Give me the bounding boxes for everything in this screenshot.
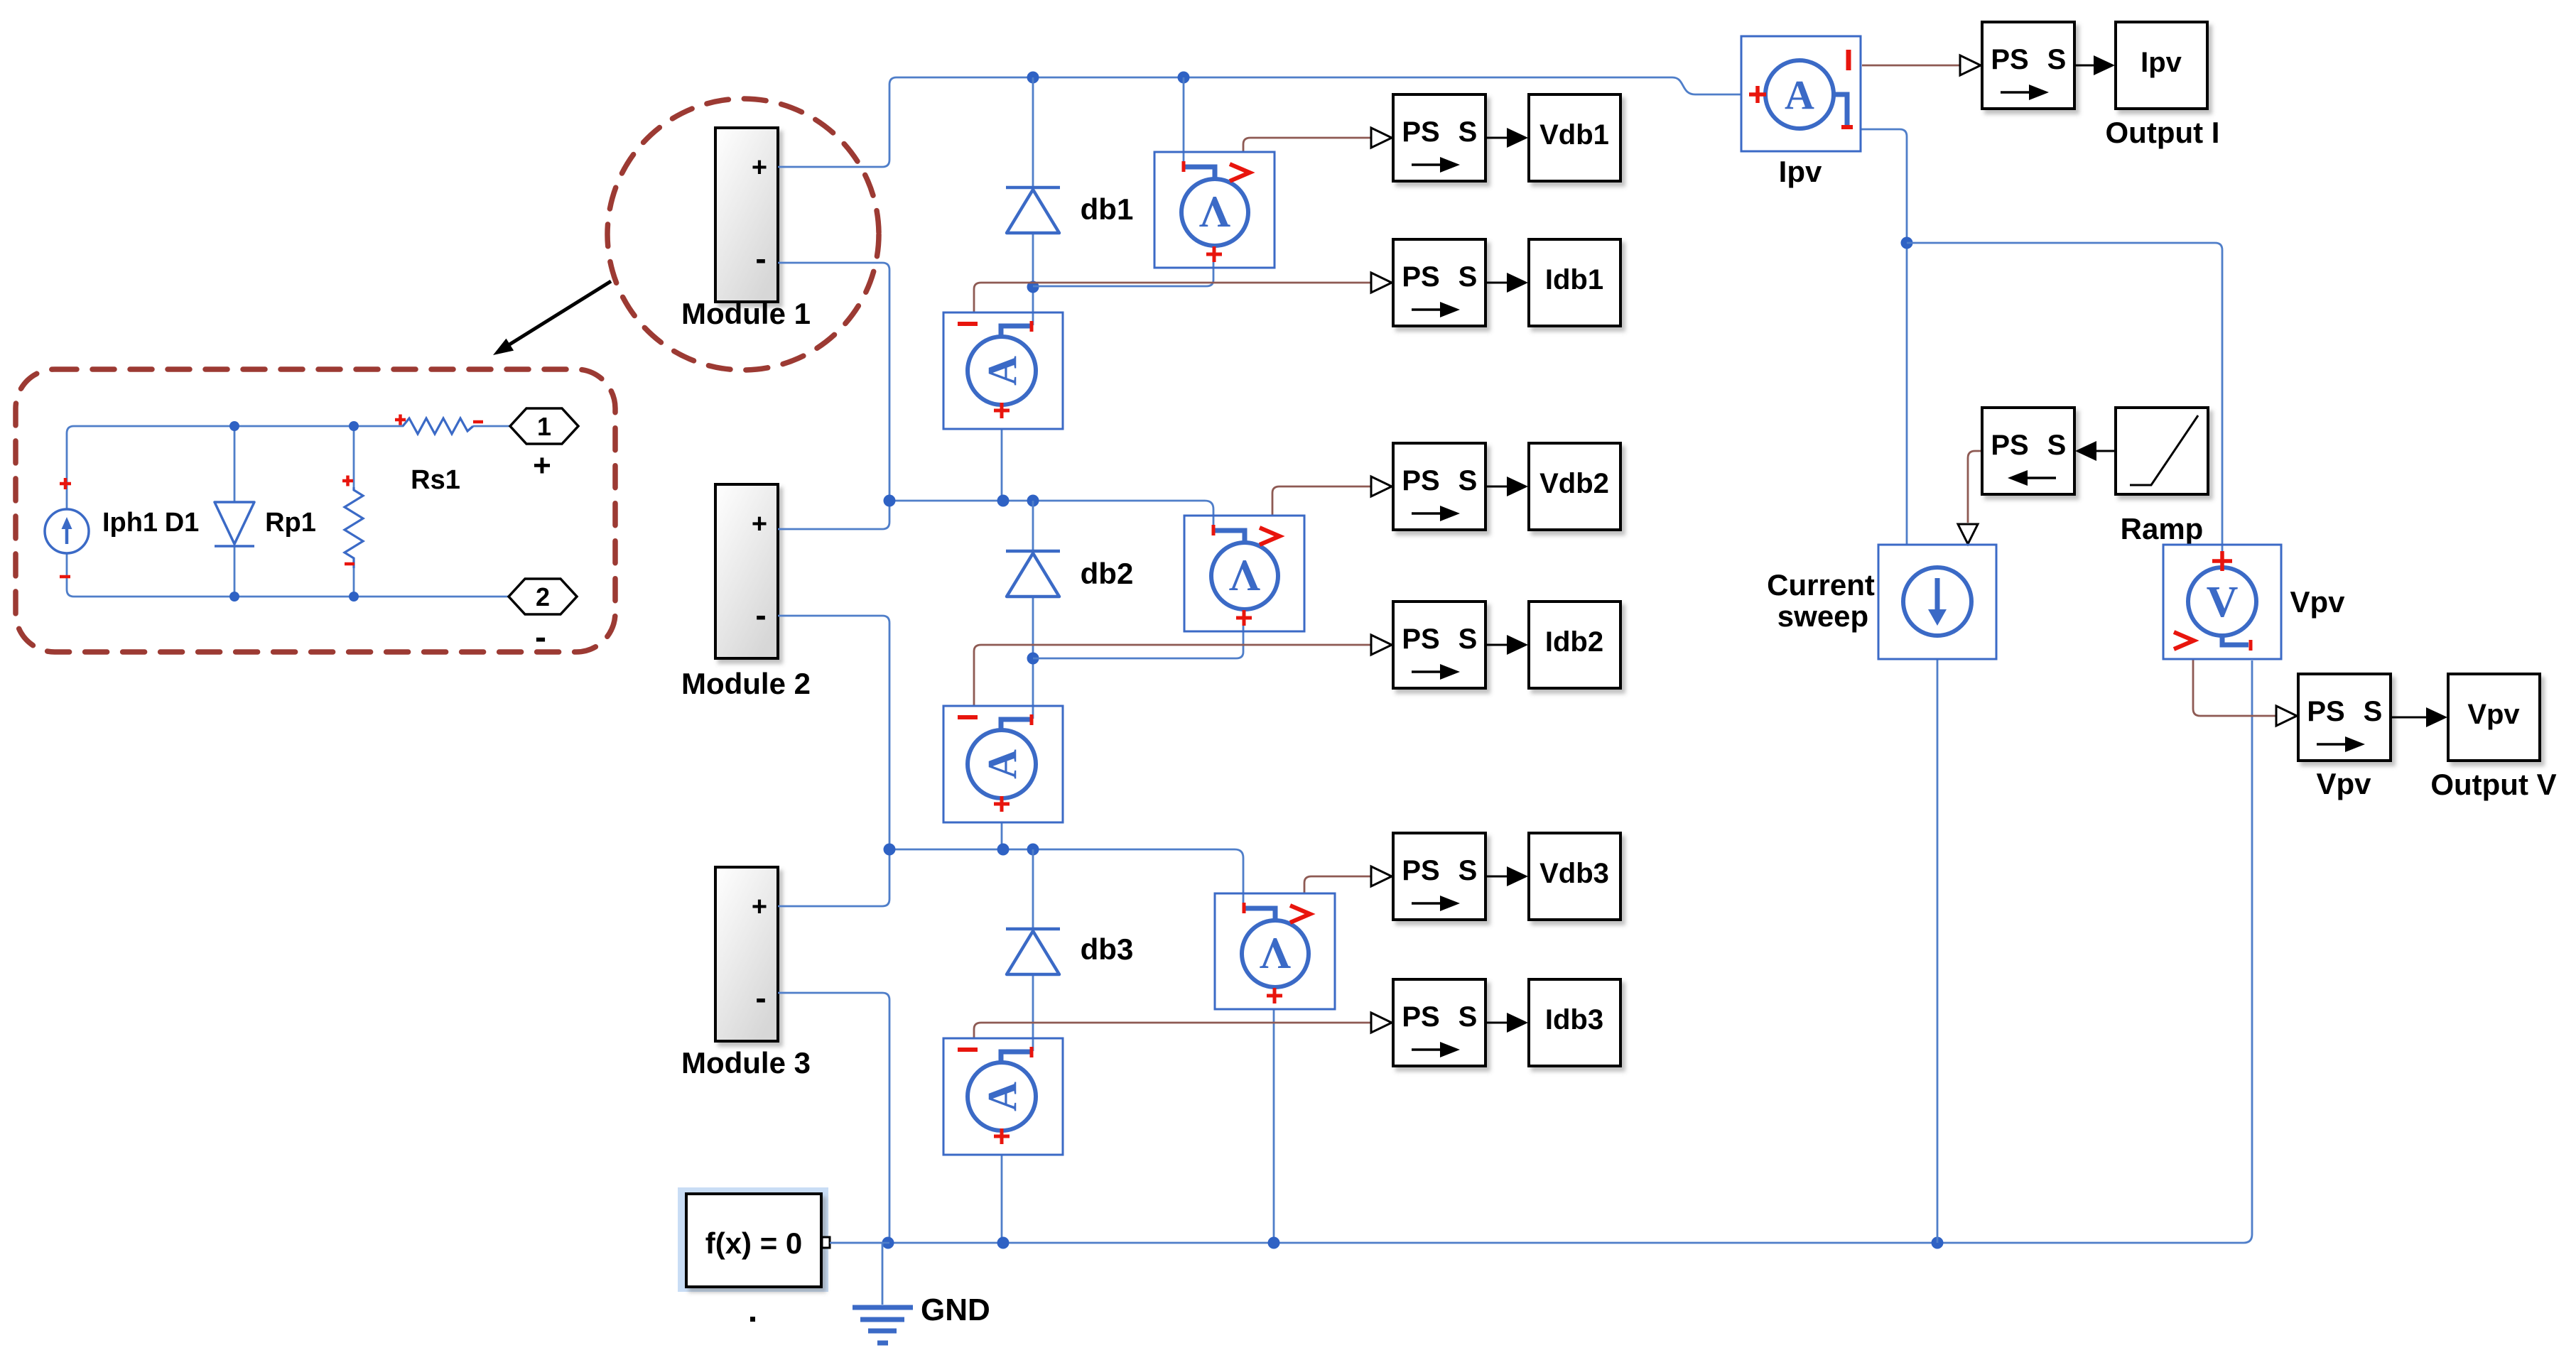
svg-text:GND: GND [921, 1293, 990, 1327]
current sensor A2 (Idb2) [943, 706, 1063, 822]
wire Module 3 - down to bottom bus [778, 993, 889, 1243]
current sensor A1 (Idb1) [943, 312, 1063, 429]
junction bottom bus / current sweep [1932, 1237, 1944, 1249]
svg-text:Vdb1: Vdb1 [1539, 119, 1609, 151]
svg-text:Ipv: Ipv [1779, 155, 1822, 188]
wire db3 to A3 [1032, 976, 1034, 1051]
svg-text:A: A [1785, 72, 1814, 118]
svg-text:V: V [2207, 578, 2239, 626]
ramp source block Ramp [2116, 408, 2208, 494]
svg-text:S: S [1459, 1001, 1478, 1033]
wire A1 + to bus 2 [1001, 429, 1003, 501]
signal wire A3 to PS-S Idb3 [974, 1023, 1371, 1038]
node inset bottom-D1 [229, 592, 239, 602]
node inset top-D1 [229, 421, 239, 431]
junction bottom bus / V3 [1268, 1237, 1280, 1249]
current sensor Ipv [1741, 36, 1861, 151]
svg-text:V: V [1198, 187, 1230, 236]
wire top bus to db1 [1032, 77, 1034, 187]
voltage sensor V3 (Vdb3) [1215, 893, 1335, 1009]
svg-text:db2: db2 [1081, 557, 1134, 590]
wire junction to Vpv + [1907, 243, 2222, 562]
junction bus2 / A1 [997, 495, 1010, 507]
wire bus 2 to db2 [1032, 501, 1034, 550]
junction bottom bus / GND [882, 1237, 894, 1249]
svg-text:-: - [755, 979, 766, 1016]
node inset bottom-Rp1 [349, 592, 359, 602]
wire V2 + to db2 bottom node [1033, 626, 1243, 658]
voltage sensor V1 (Vdb1) [1154, 152, 1275, 268]
svg-text:PS: PS [1402, 855, 1439, 886]
PS-Simulink converter Vdb2 [1393, 443, 1485, 530]
junction bottom bus / A3 [997, 1237, 1010, 1249]
svg-text:2: 2 [536, 582, 550, 611]
junction bus2 / db2 [1027, 495, 1039, 507]
signal wire V1 to PS-S Vdb1 [1243, 138, 1371, 151]
signal wire A1 to PS-S Idb1 [974, 283, 1371, 313]
annotation dashed box (module equivalent circuit) [16, 369, 615, 652]
junction bus3 / A2 [997, 844, 1010, 856]
signal arrow PS-S to Idb2 [1486, 644, 1507, 646]
svg-text:PS: PS [1991, 430, 2028, 461]
svg-text:-: - [535, 619, 546, 656]
svg-text:Module 2: Module 2 [681, 667, 811, 700]
svg-text:Module 1: Module 1 [681, 297, 811, 330]
junction db2 bottom node [1027, 653, 1039, 665]
current source Current sweep [1878, 545, 1996, 659]
svg-text:V: V [1228, 551, 1260, 599]
diode db2 [1006, 551, 1060, 597]
input arrow PS-S Idb3 [1371, 1013, 1392, 1033]
wire A3 + to bottom bus [1001, 1155, 1003, 1243]
port 1 [510, 408, 578, 444]
signal wire V3 to PS-S Vdb3 [1304, 876, 1371, 893]
display block Ipv (Output I) [2116, 22, 2207, 109]
svg-text:Idb1: Idb1 [1545, 264, 1603, 295]
svg-text:Rs1: Rs1 [411, 465, 460, 495]
svg-text:PS: PS [2307, 696, 2344, 727]
svg-text:PS: PS [1402, 1001, 1439, 1033]
PS-Simulink converter Ipv [1982, 22, 2074, 109]
wire inset bottom rail [67, 553, 510, 597]
wire Module 2 - down to bus 3 [778, 616, 889, 849]
svg-text:Vpv: Vpv [2290, 585, 2345, 619]
svg-text:Vdb2: Vdb2 [1539, 468, 1609, 499]
svg-text:S: S [1459, 624, 1478, 655]
display block Vdb2 [1529, 443, 1620, 530]
diode db3 [1006, 929, 1060, 974]
svg-text:1: 1 [537, 412, 551, 441]
wire inset D1 bottom [234, 547, 236, 597]
wire bottom bus to Vpv - [831, 660, 2252, 1243]
wire current sweep - to bottom bus [1937, 660, 1939, 1243]
Simulink-PS converter (ramp) [1982, 408, 2074, 494]
input arrow PS-S Vpv [2276, 706, 2297, 726]
module block Module 2 [715, 484, 778, 658]
resistor Rp1 [342, 476, 363, 569]
wire db2 to junction to A2 [1032, 598, 1034, 719]
svg-text:S: S [1459, 465, 1478, 496]
svg-text:PS: PS [1402, 116, 1439, 148]
svg-text:PS: PS [1402, 465, 1439, 496]
svg-text:f(x) = 0: f(x) = 0 [705, 1226, 803, 1260]
junction top bus / db1 [1027, 72, 1039, 84]
signal wire PS-S to current sweep control [1968, 451, 1982, 523]
PS-Simulink converter Idb3 [1393, 979, 1485, 1066]
display block Idb2 [1529, 602, 1620, 688]
current source Iph1 [45, 478, 89, 577]
signal arrow Ramp to converter [2096, 450, 2116, 452]
display block Vdb1 [1529, 94, 1620, 181]
wire V1 + to db1 bottom node [1033, 261, 1213, 286]
diode db1 [1006, 187, 1060, 233]
svg-text:db1: db1 [1081, 192, 1134, 226]
svg-text:Ipv: Ipv [2141, 47, 2182, 78]
wire inset top rail [67, 426, 404, 509]
input arrow PS-S Idb2 [1371, 635, 1392, 655]
svg-text:Ramp: Ramp [2121, 512, 2204, 545]
svg-text:sweep: sweep [1777, 599, 1868, 633]
PS-Simulink converter Vdb3 [1393, 833, 1485, 920]
junction bus3 / db3 [1027, 844, 1039, 856]
svg-text:Current: Current [1767, 568, 1875, 602]
signal arrow PS-S to Idb1 [1486, 282, 1507, 284]
junction top bus / V1 [1178, 72, 1190, 84]
svg-text:+: + [752, 153, 767, 183]
module block Module 3 [715, 867, 778, 1041]
svg-text:S: S [2047, 44, 2067, 75]
annotation dot below solver [750, 1317, 755, 1322]
svg-text:Idb2: Idb2 [1545, 626, 1603, 658]
svg-text:A: A [979, 749, 1025, 779]
wire inset Rp1 top [353, 426, 355, 487]
input arrow PS-S Idb1 [1371, 273, 1392, 293]
wire bus 3 to db3 [1032, 849, 1034, 928]
signal arrow PS-S to Vdb3 [1486, 876, 1507, 878]
svg-text:+: + [752, 892, 767, 922]
svg-text:Iph1: Iph1 [102, 508, 158, 538]
PS-Simulink converter Idb2 [1393, 602, 1485, 688]
node inset top-Rp1 [349, 421, 359, 431]
svg-text:Vpv: Vpv [2467, 699, 2520, 730]
signal arrow PS-S to Idb3 [1486, 1022, 1507, 1024]
module block Module 1 [715, 128, 778, 302]
svg-text:db3: db3 [1081, 932, 1134, 966]
signal wire Ipv sensor to PS-S Ipv [1862, 65, 1959, 67]
wire solver to bottom bus [830, 1242, 889, 1244]
wire Ipv - down to current sweep [1861, 129, 1907, 545]
svg-text:-: - [755, 597, 766, 633]
port 2 [509, 579, 577, 614]
wire top bus to V1 input [1183, 77, 1185, 164]
signal wire Vpv sensor to PS-S Vpv [2193, 660, 2275, 716]
signal arrow PS-S to Ipv [2074, 65, 2094, 67]
svg-text:Output I: Output I [2106, 116, 2220, 149]
svg-text:D1: D1 [165, 508, 200, 538]
svg-text:PS: PS [1402, 624, 1439, 655]
wire bottom bus to ground [882, 1243, 884, 1305]
ground GND [853, 1307, 913, 1343]
wire Module 1 + to top bus to Ipv sensor [778, 77, 1741, 167]
svg-text:+: + [752, 509, 767, 539]
svg-text:PS: PS [1402, 261, 1439, 293]
svg-text:S: S [1459, 261, 1478, 293]
annotation dashed circle around Module 1 [607, 99, 879, 370]
wire bus 2 to V2 input [889, 501, 1213, 530]
PS-Simulink converter Idb1 [1393, 239, 1485, 326]
wire db1 to junction to A1 [1032, 234, 1034, 325]
svg-text:S: S [1459, 855, 1478, 886]
signal arrow PS-S to Vdb1 [1486, 137, 1507, 139]
PS-Simulink converter Vpv [2298, 674, 2391, 761]
junction db1 bottom node [1027, 281, 1039, 293]
wire Module 3 + up to bus 3 [778, 849, 889, 906]
voltage sensor V2 (Vdb2) [1184, 516, 1304, 631]
input arrow PS-S Vdb1 [1371, 128, 1392, 148]
signal wire V2 to PS-S Vdb2 [1272, 486, 1371, 515]
diode D1 [215, 502, 254, 546]
wire inset D1 top [234, 426, 236, 502]
wire A2 + to bus 3 [1001, 822, 1003, 849]
resistor Rs1 [395, 415, 483, 435]
wire Rs1 to port 1 [473, 425, 510, 428]
junction bus2 / modules [884, 495, 896, 507]
svg-text:PS: PS [1991, 44, 2028, 75]
current sensor A3 (Idb3) [943, 1038, 1063, 1155]
signal arrow PS-S to Vpv [2391, 717, 2426, 719]
annotation arrow from circle to inset [493, 281, 611, 355]
svg-text:Idb3: Idb3 [1545, 1004, 1603, 1035]
svg-text:S: S [2364, 696, 2383, 727]
display block Idb3 [1529, 979, 1620, 1066]
svg-text:A: A [979, 1082, 1025, 1111]
signal arrow PS-S to Vdb2 [1486, 486, 1507, 488]
solver block f(x) = 0 [678, 1187, 830, 1292]
display block Vdb3 [1529, 833, 1620, 920]
wire Module 2 + up to bus 2 [778, 501, 889, 529]
svg-text:V: V [1259, 929, 1291, 977]
wire Module 1 - down to bus 2 [778, 263, 889, 501]
wire inset Rp1 bottom [353, 568, 355, 597]
display block Idb1 [1529, 239, 1620, 326]
svg-text:+: + [533, 448, 551, 483]
svg-text:Vpv: Vpv [2316, 767, 2371, 800]
wire bus 3 to V3 input [889, 849, 1243, 905]
svg-text:Output V: Output V [2430, 768, 2556, 801]
wire V3 + down to bottom bus [1273, 1008, 1275, 1243]
svg-text:S: S [1459, 116, 1478, 148]
svg-text:Vdb3: Vdb3 [1539, 858, 1609, 889]
input arrow PS-S Ipv [1960, 55, 1981, 75]
input arrow PS-S Vdb3 [1371, 866, 1392, 886]
control input arrow current sweep [1958, 524, 1978, 544]
voltage sensor Vpv [2163, 545, 2281, 659]
svg-text:A: A [979, 356, 1025, 386]
signal wire A2 to PS-S Idb2 [974, 645, 1371, 705]
svg-text:S: S [2047, 430, 2067, 461]
svg-text:-: - [755, 240, 766, 277]
svg-text:Rp1: Rp1 [265, 508, 316, 538]
junction bus3 / modules [884, 844, 896, 856]
junction Ipv - / Vpv + [1901, 237, 1913, 249]
PS-Simulink converter Vdb1 [1393, 94, 1485, 181]
input arrow PS-S Vdb2 [1371, 477, 1392, 496]
svg-text:Module 3: Module 3 [681, 1046, 811, 1079]
display block Vpv (Output V) [2448, 674, 2540, 761]
